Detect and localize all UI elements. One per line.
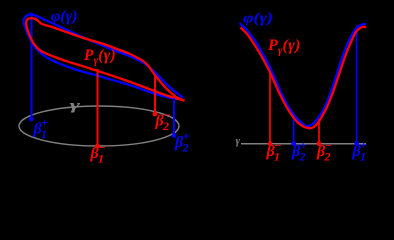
svg-text:γ: γ [236, 135, 241, 147]
point beta1- right fig [268, 141, 273, 146]
point beta2- left fig [153, 112, 158, 117]
axis gamma [241, 143, 366, 145]
svg-text:−: − [274, 139, 282, 153]
wire: line beta1+ (blue tall, left) [31, 13, 33, 120]
svg-text:−: − [163, 108, 171, 122]
line beta2- right fig [318, 119, 320, 144]
svg-text:−: − [98, 141, 106, 155]
point beta1- left fig [95, 144, 100, 149]
curve P_gamma(gamma): red ring [26, 18, 184, 101]
svg-text:+: + [300, 139, 307, 153]
svg-text:φ(γ): φ(γ) [51, 8, 78, 25]
svg-text:γ: γ [70, 98, 81, 113]
point beta2+ left fig [172, 133, 177, 138]
point beta2+ right fig [291, 141, 296, 146]
line beta1- right fig [269, 72, 271, 144]
svg-text:−: − [325, 139, 333, 153]
point beta2- right fig [317, 141, 322, 146]
svg-text:φ(γ): φ(γ) [243, 11, 273, 27]
svg-text:+: + [360, 139, 367, 153]
curve P_gamma(gamma): red right fig [241, 27, 367, 129]
line beta2+ left fig (blue far right) [173, 98, 175, 136]
loop gamma: gray ellipse [19, 106, 179, 146]
line beta1+ right fig [356, 26, 358, 144]
line beta2+ right fig [293, 117, 295, 144]
svg-text:Pγ(γ): Pγ(γ) [84, 47, 116, 67]
svg-text:Pγ(γ): Pγ(γ) [267, 37, 301, 57]
line beta1- left fig (red middle) [97, 69, 99, 146]
point beta1+ left fig [29, 117, 34, 122]
curve phi(gamma): blue ring [23, 14, 183, 99]
point beta1+ right fig [354, 141, 359, 146]
svg-text:+: + [183, 130, 190, 144]
svg-text:+: + [41, 116, 48, 130]
curve phi(gamma): blue right fig [240, 23, 367, 126]
line beta2- left fig (red right) [154, 74, 156, 114]
math diagram: curves phi(gamma) blue and P_gamma(gamma) red over loop gamma; 3D view left, graph right [0, 0, 394, 172]
